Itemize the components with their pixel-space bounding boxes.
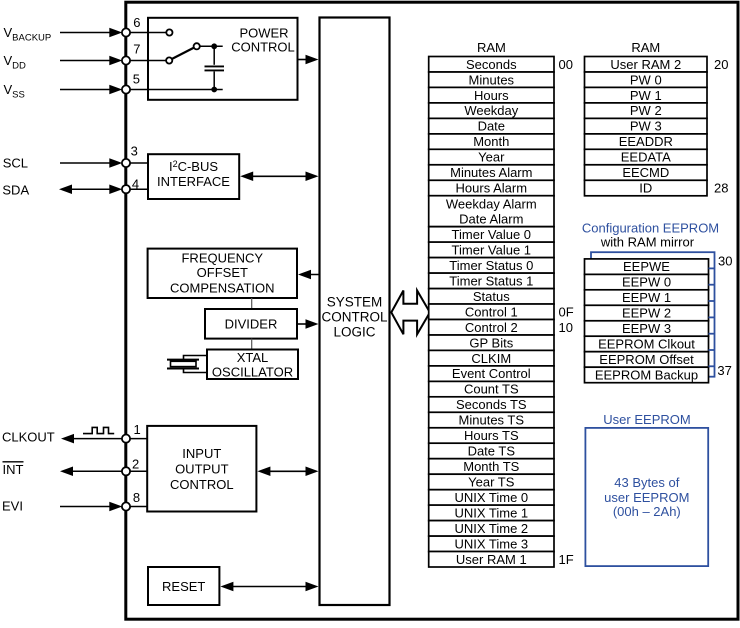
register Seconds TS: [429, 397, 554, 413]
svg-text:RAM: RAM: [631, 40, 660, 55]
mirror tick 2: [709, 284, 715, 286]
switch common contact: [194, 43, 200, 49]
svg-text:RESET: RESET: [162, 579, 205, 594]
junction node bottom: [211, 87, 217, 93]
register UNIX Time 3: [429, 536, 554, 552]
wire VSS input arrow: [60, 85, 122, 95]
register Timer Value 1: [429, 242, 554, 258]
svg-text:COMPENSATION: COMPENSATION: [170, 280, 275, 295]
crystal X1 bottom plate: [167, 368, 199, 370]
svg-text:SCL: SCL: [3, 155, 28, 170]
svg-text:EEPWE: EEPWE: [623, 259, 670, 274]
junction node top: [211, 43, 217, 49]
crystal X1 lead bottom: [184, 369, 207, 373]
svg-text:PW 3: PW 3: [630, 119, 662, 134]
register Count TS: [429, 381, 554, 397]
register User RAM 2: [585, 57, 708, 73]
svg-text:EEDATA: EEDATA: [621, 150, 671, 165]
register EEPWE: [585, 259, 709, 275]
svg-text:3: 3: [131, 144, 138, 159]
svg-text:28: 28: [714, 181, 728, 196]
svg-text:Minutes Alarm: Minutes Alarm: [450, 165, 532, 180]
svg-text:0F: 0F: [559, 304, 574, 319]
svg-text:Date TS: Date TS: [468, 444, 516, 459]
svg-text:EEPW 1: EEPW 1: [622, 290, 671, 305]
switch contact VBACKUP: [166, 29, 172, 35]
arrow input output control to system bidirectional: [257, 467, 318, 477]
pin 8: [122, 490, 140, 510]
pin 5: [122, 71, 140, 93]
pin 6: [122, 15, 141, 37]
svg-text:Weekday Alarm: Weekday Alarm: [446, 196, 537, 211]
svg-text:Configuration EEPROM: Configuration EEPROM: [582, 221, 719, 236]
pin 2: [122, 457, 139, 476]
wire node to capacitor: [213, 46, 215, 65]
svg-text:Timer Status 0: Timer Status 0: [449, 258, 533, 273]
svg-text:DIVIDER: DIVIDER: [225, 317, 278, 332]
register Control 1: [429, 304, 554, 320]
svg-text:EEPROM Clkout: EEPROM Clkout: [598, 337, 695, 352]
pin 3: [122, 144, 138, 168]
mirror tick 6: [709, 349, 715, 351]
svg-text:INPUT: INPUT: [182, 446, 221, 461]
block I2C-BUS INTERFACE U-I2C: [148, 154, 239, 199]
arrow power control to system: [298, 55, 319, 65]
crystal X1 top plate: [167, 359, 199, 361]
arrow I2C to system bidirectional: [240, 172, 318, 182]
register Status: [429, 289, 554, 305]
svg-text:1F: 1F: [559, 552, 574, 567]
svg-text:8: 8: [133, 490, 140, 505]
svg-text:EEPW 3: EEPW 3: [622, 321, 671, 336]
svg-text:LOGIC: LOGIC: [333, 324, 375, 339]
pin 1: [122, 422, 141, 443]
svg-text:30: 30: [718, 254, 732, 269]
bus arrow system to registers: [391, 291, 430, 335]
register Seconds: [429, 57, 554, 73]
register Hours Alarm: [429, 180, 554, 196]
register PW 3: [585, 118, 708, 133]
arrow reset to system bidirectional: [220, 582, 318, 592]
svg-text:INTERFACE: INTERFACE: [157, 174, 230, 189]
register PW 1: [585, 87, 708, 103]
svg-text:Timer Value 0: Timer Value 0: [452, 227, 531, 242]
svg-text:EVI: EVI: [2, 499, 23, 514]
svg-text:ID: ID: [639, 181, 652, 196]
block RESET: [148, 567, 219, 605]
register Date TS: [429, 443, 554, 459]
register EECMD: [585, 165, 708, 181]
svg-text:Year: Year: [478, 150, 505, 165]
register UNIX Time 1: [429, 505, 554, 520]
block POWER CONTROL U-PC: [148, 18, 298, 100]
register Timer Value 0: [429, 227, 554, 243]
register EEPW 0: [585, 274, 709, 290]
block XTAL OSCILLATOR: [207, 350, 298, 380]
register Hours: [429, 87, 554, 103]
register User RAM 1: [429, 552, 554, 568]
svg-text:2: 2: [132, 457, 139, 472]
svg-text:Date Alarm: Date Alarm: [459, 211, 523, 226]
svg-text:7: 7: [133, 42, 140, 57]
svg-text:Weekday: Weekday: [464, 103, 518, 118]
svg-text:FREQUENCY: FREQUENCY: [181, 250, 263, 265]
svg-text:UNIX Time 3: UNIX Time 3: [454, 536, 528, 551]
svg-text:CLKOUT: CLKOUT: [2, 429, 55, 444]
register PW 2: [585, 103, 708, 119]
wire compensation to divider: [251, 298, 253, 309]
svg-text:CONTROL: CONTROL: [321, 309, 387, 324]
register EEPW 2: [585, 305, 709, 321]
svg-text:EEPW 0: EEPW 0: [622, 275, 671, 290]
wire pin4 to I2C interface: [126, 188, 148, 190]
register Minutes Alarm: [429, 165, 554, 181]
svg-text:10: 10: [559, 320, 573, 335]
svg-text:Status: Status: [473, 289, 510, 304]
register Control 2: [429, 320, 554, 336]
block FREQUENCY OFFSET COMPENSATION: [148, 249, 297, 298]
svg-text:6: 6: [133, 15, 140, 30]
mirror tick 3: [709, 300, 715, 302]
register Weekday Alarm / Date Alarm: [429, 196, 554, 227]
svg-text:OFFSET: OFFSET: [197, 265, 248, 280]
arrow divider to system: [297, 319, 319, 329]
register Month TS: [429, 459, 554, 475]
svg-text:EEPROM Offset: EEPROM Offset: [599, 352, 694, 367]
register Hours TS: [429, 428, 554, 444]
mirror tick 7: [709, 365, 715, 367]
crystal X1 body: [171, 361, 197, 366]
svg-text:user EEPROM: user EEPROM: [604, 490, 689, 505]
register UNIX Time 2: [429, 521, 554, 537]
svg-text:INT: INT: [3, 462, 24, 477]
svg-text:EECMD: EECMD: [622, 165, 669, 180]
svg-text:PW 0: PW 0: [630, 72, 662, 87]
svg-text:1: 1: [134, 422, 141, 437]
svg-text:User RAM 1: User RAM 1: [456, 552, 527, 567]
wire EVI input arrow: [60, 502, 122, 512]
svg-text:SDA: SDA: [2, 183, 29, 198]
clock waveform symbol: [83, 427, 114, 433]
register EEDATA: [585, 149, 708, 165]
svg-text:CONTROL: CONTROL: [231, 40, 295, 55]
arrow system to compensation: [298, 270, 320, 280]
wire SCL input arrow: [60, 158, 122, 168]
register Event Control: [429, 366, 554, 382]
svg-text:Control 1: Control 1: [465, 304, 518, 319]
svg-text:Hours TS: Hours TS: [464, 428, 519, 443]
mirror tick 5: [709, 333, 715, 335]
register Weekday: [429, 103, 554, 119]
svg-text:GP Bits: GP Bits: [469, 335, 513, 350]
block INPUT OUTPUT CONTROL: [147, 426, 256, 512]
svg-text:User EEPROM: User EEPROM: [603, 412, 690, 427]
register PW 0: [585, 72, 708, 88]
svg-text:Count TS: Count TS: [464, 382, 519, 397]
crystal X1 lead top: [184, 356, 207, 360]
svg-text:CLKIM: CLKIM: [471, 351, 511, 366]
svg-text:UNIX Time 2: UNIX Time 2: [454, 521, 528, 536]
svg-text:Month TS: Month TS: [463, 459, 519, 474]
register Month: [429, 134, 554, 150]
svg-text:(00h – 2Ah): (00h – 2Ah): [613, 504, 681, 519]
wire CLKOUT output arrow: [61, 434, 122, 444]
pin 4: [122, 176, 139, 193]
svg-text:EEADDR: EEADDR: [619, 134, 673, 149]
wire capacitor to VSS rail: [213, 72, 215, 90]
wire divider to oscillator: [251, 339, 253, 350]
svg-text:Minutes TS: Minutes TS: [459, 413, 525, 428]
register Year: [429, 149, 554, 165]
svg-text:Hours: Hours: [474, 88, 509, 103]
svg-text:20: 20: [714, 57, 728, 72]
svg-text:SYSTEM: SYSTEM: [327, 294, 383, 309]
svg-text:Timer Status 1: Timer Status 1: [449, 273, 533, 288]
svg-text:UNIX Time 1: UNIX Time 1: [454, 506, 528, 521]
svg-text:Date: Date: [478, 119, 505, 134]
svg-text:Hours Alarm: Hours Alarm: [456, 181, 528, 196]
svg-text:Year TS: Year TS: [468, 475, 515, 490]
svg-text:Control 2: Control 2: [465, 320, 518, 335]
pin 7: [122, 42, 141, 65]
svg-text:CONTROL: CONTROL: [170, 477, 234, 492]
svg-text:4: 4: [132, 176, 139, 191]
wire pin8 to input output control: [126, 506, 147, 508]
svg-text:with RAM mirror: with RAM mirror: [600, 235, 695, 250]
svg-text:Seconds TS: Seconds TS: [456, 397, 527, 412]
wire INT output arrow: [60, 467, 122, 477]
svg-text:User RAM 2: User RAM 2: [610, 57, 681, 72]
capacitor C1: [205, 66, 225, 70]
wire VBACKUP input arrow: [60, 28, 122, 38]
register CLKIM: [429, 350, 554, 366]
svg-text:EEPW 2: EEPW 2: [622, 306, 671, 321]
register EEPW 1: [585, 290, 709, 306]
wire pin2 to input output control: [126, 470, 147, 472]
register Timer Status 1: [429, 273, 554, 289]
switch contact VDD: [166, 57, 172, 63]
register EEPROM Clkout: [585, 336, 709, 352]
register Year TS: [429, 474, 554, 490]
register Minutes TS: [429, 412, 554, 428]
wire SDA bidirectional arrow: [59, 184, 122, 194]
svg-text:OUTPUT: OUTPUT: [175, 462, 229, 477]
svg-text:XTAL: XTAL: [237, 350, 269, 365]
register Date: [429, 118, 554, 133]
svg-text:UNIX Time 0: UNIX Time 0: [454, 490, 528, 505]
register UNIX Time 0: [429, 490, 554, 506]
register EEPROM Offset: [585, 352, 709, 368]
wire switch common to node: [200, 45, 223, 47]
block User EEPROM: [585, 428, 708, 566]
svg-text:PW 2: PW 2: [630, 103, 662, 118]
register Minutes: [429, 72, 554, 88]
switch lever S1: [172, 48, 194, 60]
register EEPW 3: [585, 321, 709, 337]
svg-text:RAM: RAM: [477, 40, 506, 55]
wire pin1 to input output control: [126, 438, 147, 440]
register Timer Status 0: [429, 258, 554, 274]
block DIVIDER: [205, 309, 297, 339]
svg-text:00: 00: [559, 57, 573, 72]
svg-text:OSCILLATOR: OSCILLATOR: [212, 364, 293, 379]
wire pin7 to power control: [126, 60, 169, 62]
register GP Bits: [429, 335, 554, 351]
register ID: [585, 180, 708, 196]
wire VDD input arrow: [60, 56, 122, 66]
wire pin3 to I2C interface: [126, 162, 148, 164]
svg-text:Seconds: Seconds: [466, 57, 517, 72]
svg-text:5: 5: [133, 71, 140, 86]
mirror tick 4: [709, 316, 715, 318]
svg-text:37: 37: [717, 363, 731, 378]
svg-text:PW 1: PW 1: [630, 88, 662, 103]
register EEPROM Backup: [585, 367, 709, 383]
svg-text:43 Bytes of: 43 Bytes of: [614, 475, 679, 490]
wire pin5 through power control: [126, 89, 223, 91]
block SYSTEM CONTROL LOGIC: [320, 18, 390, 606]
svg-text:Month: Month: [473, 134, 509, 149]
mirror tick 1: [709, 267, 715, 269]
register EEADDR: [585, 134, 708, 150]
svg-text:EEPROM Backup: EEPROM Backup: [595, 368, 698, 383]
wire pin6 to power control: [126, 32, 169, 34]
svg-text:Timer Value 1: Timer Value 1: [452, 243, 531, 258]
svg-text:Event Control: Event Control: [452, 366, 531, 381]
svg-text:Minutes: Minutes: [469, 72, 515, 87]
EEPROM mirror outline: [591, 252, 715, 377]
svg-text:POWER: POWER: [239, 25, 288, 40]
